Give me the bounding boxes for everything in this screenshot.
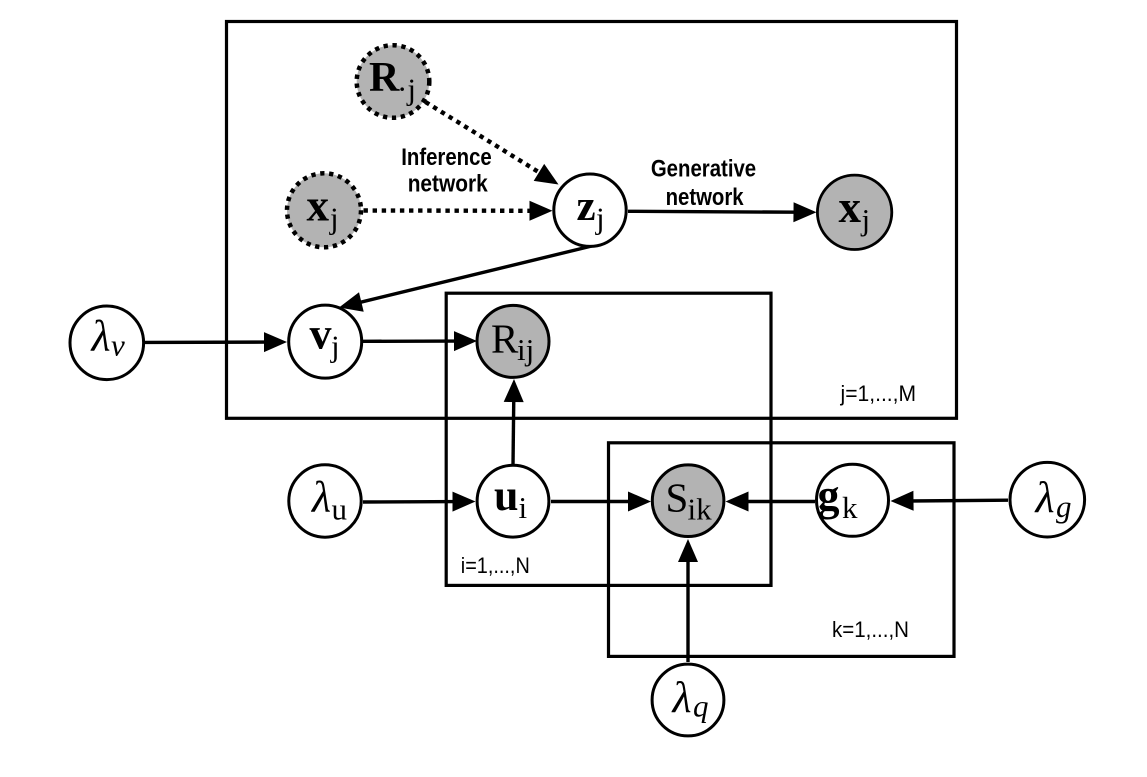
svg-text:v: v <box>310 309 332 358</box>
node x_j (observed input, dotted) <box>287 173 361 247</box>
svg-text:q: q <box>693 688 709 723</box>
node v_j <box>289 305 362 378</box>
node z_j (latent) <box>554 174 626 246</box>
svg-text:j: j <box>329 201 339 236</box>
plate j (outer, j=1,...,M) <box>227 22 957 419</box>
svg-text:ij: ij <box>517 332 534 367</box>
wire: edge lambda_v -> v_j <box>145 332 287 352</box>
svg-text:λ: λ <box>310 473 331 522</box>
wire: dotted edge R.j -> z_j (inference) <box>426 102 559 185</box>
svg-text:j: j <box>330 329 340 364</box>
node lambda_g <box>1010 462 1085 537</box>
svg-text:λ: λ <box>90 311 111 360</box>
svg-text:z: z <box>577 183 596 230</box>
plate k (k=1,...,N) <box>609 443 955 657</box>
label: Generative network <box>651 155 756 211</box>
svg-text:v: v <box>111 327 125 362</box>
svg-text:Generative: Generative <box>651 155 756 182</box>
svg-text:g: g <box>818 471 840 520</box>
svg-text:g: g <box>1056 489 1072 524</box>
svg-text:u: u <box>494 471 518 520</box>
node R.j (observed, dotted) <box>357 45 430 118</box>
label: Inference network <box>401 144 492 198</box>
wire: edge z_j -> x_j (generative) <box>628 202 817 222</box>
svg-text:λ: λ <box>671 673 692 722</box>
wire: edge lambda_g -> g_k <box>891 491 1009 511</box>
wire: edge lambda_u -> u_i <box>363 492 476 512</box>
svg-text:k: k <box>842 490 858 525</box>
wire: edge u_i -> R_ij <box>504 379 524 466</box>
node lambda_q <box>652 664 724 736</box>
svg-text:x: x <box>307 180 330 230</box>
svg-text:u: u <box>332 491 348 526</box>
node g_k <box>817 464 889 536</box>
wire: edge u_i -> S_ik <box>551 492 651 512</box>
wire: edge v_j -> R_ij <box>363 331 477 351</box>
svg-text:x: x <box>839 182 862 232</box>
node lambda_u <box>289 465 361 537</box>
svg-text:i: i <box>519 490 528 525</box>
plate i (i=1,...,N) <box>446 293 771 585</box>
svg-text:R: R <box>369 55 400 101</box>
wire: edge z_j -> v_j <box>339 244 600 312</box>
node lambda_v <box>70 306 144 380</box>
svg-text:S: S <box>666 475 689 521</box>
node u_i <box>477 465 549 537</box>
wire: dotted edge x_j -> z_j (inference) <box>364 201 553 221</box>
node S_ik (observed, shaded) <box>652 465 724 537</box>
svg-text:network: network <box>666 184 745 211</box>
svg-text:λ: λ <box>1034 473 1055 522</box>
svg-text:j: j <box>861 202 871 237</box>
svg-text:R: R <box>491 315 519 361</box>
svg-text:·j: ·j <box>397 72 416 107</box>
svg-text:network: network <box>408 171 489 198</box>
svg-text:ik: ik <box>688 492 713 527</box>
svg-text:j=1,...,M: j=1,...,M <box>840 381 916 406</box>
wire: edge lambda_q -> S_ik <box>678 539 698 662</box>
svg-text:k=1,...,N: k=1,...,N <box>832 617 909 642</box>
svg-text:i=1,...,N: i=1,...,N <box>461 553 530 578</box>
svg-text:j: j <box>595 201 605 236</box>
node R_ij (observed rating, shaded) <box>477 305 549 377</box>
svg-text:Inference: Inference <box>401 144 492 171</box>
node x_j (generated, shaded) <box>817 175 891 249</box>
wire: edge g_k -> S_ik <box>726 492 816 512</box>
